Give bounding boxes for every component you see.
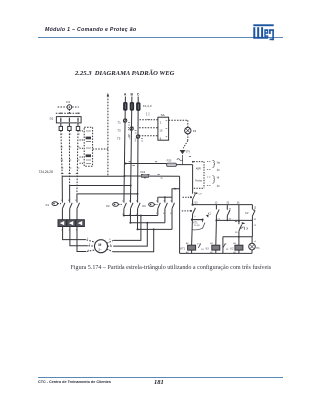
CT T3 on phase B [117, 127, 133, 133]
node label A [124, 93, 127, 97]
svg-text:3~: 3~ [98, 248, 102, 252]
wire link to motor 6 [113, 215, 142, 241]
tick marks on dashed columns [60, 134, 80, 168]
wire control bottom rail [180, 252, 252, 254]
contact KT1 timed [235, 205, 246, 246]
svg-text:13: 13 [254, 207, 257, 209]
earth symbol [180, 150, 191, 154]
wire S-chain vertical top [192, 165, 194, 194]
svg-text:T5: T5 [117, 137, 121, 141]
svg-text:K2: K2 [106, 204, 110, 208]
svg-text:21: 21 [254, 225, 257, 227]
svg-text:H1: H1 [256, 247, 260, 250]
svg-text:M: M [98, 243, 101, 247]
lamp H1 [249, 237, 261, 254]
svg-text:62: 62 [254, 219, 257, 221]
svg-text:18: 18 [201, 249, 204, 251]
svg-text:17: 17 [224, 244, 227, 246]
svg-text:x1: x1 [254, 241, 257, 243]
coil K3 [212, 245, 220, 253]
wire K2-K3 link pole 1 [123, 215, 158, 217]
contact K2 interlock branch [227, 205, 232, 221]
wire dashed SA to F2 lamp [169, 120, 188, 127]
svg-text:K1: K1 [46, 203, 50, 207]
wire dashed F2 to ground tap [183, 134, 188, 148]
wire control top rail [193, 203, 257, 210]
svg-text:K2: K2 [230, 247, 234, 250]
svg-text:F20: F20 [167, 159, 172, 163]
wire K2-K3 link pole 2 [129, 222, 165, 224]
wire overload to motor W [77, 227, 96, 252]
svg-text:43: 43 [229, 208, 232, 210]
svg-text:57: 57 [242, 227, 245, 229]
contactor K3 actuator [142, 203, 157, 208]
svg-text:Fecha: Fecha [195, 180, 202, 183]
coil KT1 [180, 245, 195, 253]
svg-text:KT1: KT1 [180, 246, 185, 250]
svg-text:A1: A1 [186, 242, 189, 245]
svg-text:ABR: ABR [196, 168, 201, 171]
wire dashed tap C to SA [139, 135, 158, 137]
wire dashed bus above D1 [56, 112, 81, 114]
wire phase B [131, 97, 132, 203]
svg-text:A1: A1 [233, 242, 236, 245]
thermistor relay module dashed box [80, 127, 93, 166]
contact KT1 aux bridge [191, 215, 209, 230]
svg-text:B: B [131, 93, 134, 97]
contact K2 NC right branch [245, 205, 257, 237]
wire dashed column T24 [61, 131, 62, 177]
svg-text:a 8: a 8 [199, 193, 203, 195]
contactor K2 actuator [106, 203, 123, 208]
wire motor terminal 4 [108, 244, 114, 246]
misc tick marks between phases [128, 113, 150, 142]
svg-text:F19: F19 [141, 170, 146, 174]
overload relay F7 [58, 220, 84, 232]
svg-text:D1: D1 [50, 117, 54, 121]
wire dashed tap A to SA [140, 119, 158, 121]
svg-text:4: 4 [194, 216, 196, 218]
circuit breaker F3 [58, 100, 79, 113]
svg-text:Nf: Nf [217, 177, 220, 180]
svg-text:3: 3 [194, 208, 196, 210]
fuse F2 [130, 102, 134, 111]
node label C [137, 93, 140, 97]
fuse F20 [167, 159, 177, 167]
svg-text:C: C [137, 93, 140, 97]
wire dashed column T26 [68, 131, 70, 186]
wire K1 feeder phase C [77, 193, 139, 203]
svg-text:K2: K2 [245, 212, 249, 215]
wire K1 feeder phase A [62, 176, 124, 202]
wire dashed column T28 [77, 131, 78, 194]
contact marks between coils 1-2 [197, 243, 209, 251]
terminal legend braces and labels [196, 160, 221, 195]
svg-text:F1,2,3: F1,2,3 [143, 104, 152, 108]
wire control left rail [179, 176, 181, 253]
wire dashed terminal legend box [192, 161, 204, 188]
wire lamp rail [223, 237, 253, 254]
motor M1 [95, 240, 108, 253]
rectifier D1 [50, 117, 82, 123]
wire seal junction [215, 219, 252, 245]
svg-text:K1: K1 [208, 212, 212, 215]
svg-text:5: 5 [109, 250, 111, 252]
svg-text:K3: K3 [206, 247, 210, 250]
svg-text:2: 2 [89, 244, 91, 246]
fuse links below D1 [59, 123, 80, 131]
svg-text:1: 1 [87, 238, 89, 240]
wire K1 feeder phase B [70, 185, 132, 203]
svg-text:2: 2 [160, 121, 162, 125]
contactor K2 main contacts [122, 200, 140, 229]
wire overload to motor V [70, 227, 95, 246]
svg-text:KT1: KT1 [193, 221, 198, 224]
WEG logo [253, 24, 274, 40]
pushbutton S1 [182, 208, 196, 245]
wire dashed vertical D-line [107, 93, 110, 176]
pushbutton S0 [183, 193, 197, 205]
svg-text:F2: F2 [193, 129, 197, 133]
svg-text:T1: T1 [117, 120, 121, 124]
fuse F19 [141, 170, 150, 178]
svg-text:SA: SA [161, 113, 165, 117]
svg-text:18: 18 [226, 249, 229, 251]
wire dashed tap B to SA [139, 127, 158, 129]
contact marks between coils 2-3 [223, 243, 234, 251]
wire motor terminal 5 [107, 249, 113, 252]
svg-text:58: 58 [235, 232, 238, 234]
coil K2 [235, 245, 243, 253]
node rail junction [192, 204, 194, 206]
wire control tap L2 with junction [124, 175, 180, 177]
tick marks T22 on control tap L2 [158, 157, 192, 178]
svg-text:6: 6 [109, 239, 111, 241]
wire control tap L1 with junction [125, 162, 167, 166]
svg-text:A: A [124, 93, 127, 97]
wire link to motor 4 [114, 222, 149, 246]
pin labels group [122, 193, 257, 254]
node labels T24,26,28 [39, 170, 79, 174]
node label B [131, 93, 134, 97]
svg-text:0TV: 0TV [186, 151, 191, 153]
CT T1 on phase A [117, 119, 127, 125]
wire K3 star bridge [158, 188, 180, 199]
wire motor terminal 6 [107, 239, 113, 243]
contactor K3 main contacts [156, 197, 174, 229]
fuse F3a [136, 102, 140, 111]
wire K2-K3 link pole 3 [137, 228, 173, 230]
wire F20 to S-chain [176, 155, 192, 165]
value label F1,2,3 [143, 104, 152, 108]
voltmeter F2 [185, 127, 197, 133]
svg-text:T3: T3 [117, 128, 121, 132]
wire phase C [137, 97, 140, 203]
contactor K1 actuator [46, 202, 62, 207]
contact K1 seal-in [208, 205, 221, 221]
svg-text:3: 3 [88, 250, 90, 252]
svg-text:F2: F2 [217, 169, 220, 172]
fuse F1 [123, 102, 127, 111]
svg-text:15 18: 15 18 [194, 225, 200, 227]
wire link to motor 5 [113, 228, 155, 251]
contactor K1 main contacts [61, 200, 80, 219]
svg-text:K3: K3 [142, 204, 146, 208]
svg-text:A1: A1 [210, 242, 213, 245]
wire overload to motor U [63, 227, 96, 242]
svg-text:F2: F2 [217, 185, 220, 188]
wire dashed link module to D-line [93, 148, 108, 150]
svg-text:10: 10 [159, 129, 162, 133]
CT T5 on phase C [117, 135, 140, 141]
svg-text:F3: F3 [66, 100, 70, 104]
svg-text:Na: Na [217, 162, 221, 165]
svg-text:T24,26,28: T24,26,28 [39, 170, 54, 174]
wire phase A [124, 97, 126, 203]
selector switch SA [158, 113, 169, 141]
